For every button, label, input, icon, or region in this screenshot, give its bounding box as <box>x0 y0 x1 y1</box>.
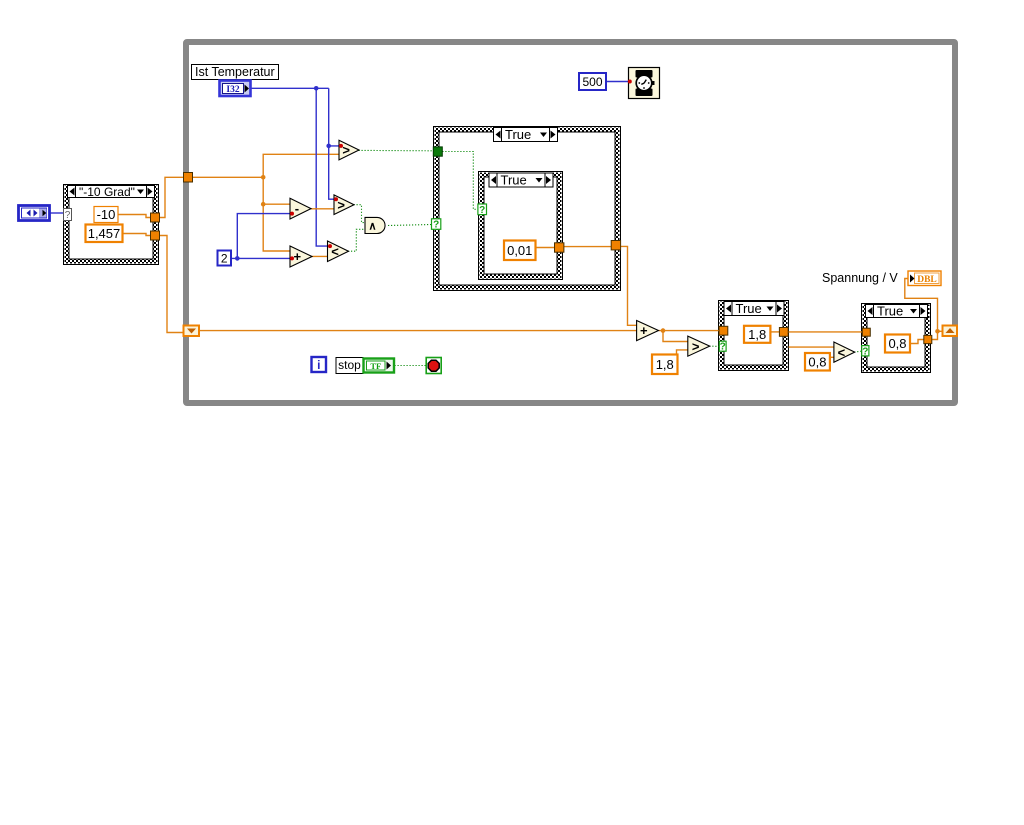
wire const2 to add <box>237 257 290 259</box>
case structure CS0 border <box>64 185 159 265</box>
tunnel CS1 green in <box>433 147 442 156</box>
svg-text:>: > <box>342 143 350 158</box>
svg-text:0,01: 0,01 <box>507 243 532 258</box>
svg-text:?: ? <box>65 210 71 221</box>
case selector terminal CS4 <box>862 346 869 358</box>
wire case2 tunnel to case1 tunnel <box>564 246 611 248</box>
coercion dot greater2 top <box>334 197 338 201</box>
numeric constant 500 (K500) <box>579 73 606 90</box>
wire loop tunnel to junction A <box>192 176 263 178</box>
I32 control terminal <box>220 81 251 97</box>
wire stop TF to loop condition <box>395 365 427 367</box>
stop TF terminal <box>364 359 395 373</box>
case selector label CS1 <box>494 127 558 142</box>
svg-text:>: > <box>337 197 345 212</box>
svg-text:-10: -10 <box>97 207 116 222</box>
wire green tunnel to case2 term <box>442 152 478 210</box>
node greater2 &gt; <box>334 195 354 215</box>
svg-text:1,8: 1,8 <box>748 327 766 342</box>
junction C2 <box>326 144 331 149</box>
case selector label CS2 <box>489 173 553 188</box>
numeric constant -10 (K-10) <box>94 207 118 223</box>
wire add2 junction down to greater3 <box>663 331 688 342</box>
wire 500 to wait <box>606 81 628 83</box>
case selector label CS4 <box>866 304 928 319</box>
wire junction C down vert1 <box>316 88 328 246</box>
svg-text:-: - <box>295 201 299 216</box>
tunnel CS4 out <box>924 335 932 343</box>
wire const 0,8 to less2 <box>830 356 834 358</box>
svg-text:True: True <box>501 173 527 188</box>
wire const 1,8 to greater3 <box>677 350 689 355</box>
svg-text:?: ? <box>479 205 485 216</box>
tunnel CS3 in <box>719 326 728 335</box>
junction A <box>261 175 266 180</box>
svg-text:I32: I32 <box>226 85 239 95</box>
svg-text:+: + <box>640 323 648 338</box>
label stop <box>336 358 363 374</box>
svg-text:"-10 Grad": "-10 Grad" <box>79 185 135 199</box>
wire -10 to tunnel <box>118 215 151 218</box>
tunnel CS1 out <box>611 241 620 250</box>
wire less2 out to case4 term <box>854 351 862 352</box>
svg-text:∧: ∧ <box>368 221 376 233</box>
wire junction B down to add input <box>263 204 290 251</box>
numeric constant 1,457 (K1457) <box>86 225 123 243</box>
case selector terminal CS2 <box>478 204 487 216</box>
svg-text:<: < <box>838 345 846 360</box>
wire 0,01 to case2 tunnel <box>536 247 555 249</box>
wire add out to less1 <box>312 255 329 257</box>
svg-text:0,8: 0,8 <box>888 336 906 351</box>
case structure CS1 border <box>434 127 621 291</box>
wire junction A up to greater1 input <box>263 154 339 177</box>
DBL indicator <box>908 271 941 286</box>
svg-text:500: 500 <box>582 75 602 89</box>
label Ist Temperatur <box>192 65 279 80</box>
svg-text:>: > <box>692 339 700 354</box>
case structure CS2 border <box>479 172 563 280</box>
junction C <box>314 86 319 91</box>
left shift register <box>184 326 200 337</box>
numeric constant 2 (K2) <box>218 251 232 266</box>
wire I32 to junction C <box>251 87 329 89</box>
tunnel CS2 out <box>555 243 564 252</box>
wire 1,457 to tunnel <box>123 234 151 236</box>
case selector terminal CS3 <box>719 341 726 353</box>
wire case3 1,8 to tunnel <box>770 331 779 333</box>
node less2 &lt; <box>834 342 855 362</box>
wire case4 tunnel to junction D <box>932 331 938 339</box>
svg-text:?: ? <box>433 220 439 231</box>
wire case1 out to add2 top <box>621 246 637 325</box>
coercion dot greater1 top <box>339 144 343 148</box>
numeric constant 0,8 (K08a) <box>805 353 830 371</box>
junction const2 branch <box>235 256 240 261</box>
svg-text:+: + <box>293 249 301 264</box>
svg-text:DBL: DBL <box>917 275 937 285</box>
tunnel CS4 in <box>862 328 870 336</box>
wire junction A down to junction B <box>263 177 290 204</box>
svg-text:stop: stop <box>338 358 361 372</box>
svg-text:True: True <box>736 301 762 316</box>
coercion dot wait input <box>628 80 632 84</box>
case selector label CS3 <box>724 301 784 316</box>
svg-text:Ist Temperatur: Ist Temperatur <box>195 65 275 79</box>
svg-text:<: < <box>331 244 339 259</box>
case CS0 selector terminal <box>64 209 72 222</box>
svg-text:True: True <box>877 304 903 319</box>
wire enum to case selector <box>50 212 64 214</box>
iteration terminal i <box>312 357 327 372</box>
numeric constant 1,8 (K18b) <box>744 326 770 343</box>
while loop border <box>186 42 955 403</box>
coercion dot less1 top <box>328 244 332 248</box>
tunnel while loop left <box>184 173 193 183</box>
wire vert2 down to greater2 <box>329 146 335 199</box>
wire case4 0,8 to tunnel <box>910 340 924 344</box>
node greater1 &gt; <box>339 140 359 160</box>
coercion dot subtract bottom <box>290 212 294 216</box>
svg-text:i: i <box>317 358 320 372</box>
node add <box>290 246 312 267</box>
numeric constant 0,8 (K08b) <box>885 335 910 353</box>
node subtract <box>290 198 311 219</box>
svg-text:True: True <box>505 127 531 142</box>
wire vert2 down to greater1 <box>329 88 340 146</box>
wire case3 tunnel to case4 tunnel <box>788 331 862 333</box>
svg-text:TF: TF <box>370 361 381 371</box>
node less1 &lt; <box>328 241 349 262</box>
svg-text:Spannung / V: Spannung / V <box>822 271 898 285</box>
svg-text:0,8: 0,8 <box>808 354 826 369</box>
wire subtract out to greater2 <box>311 208 335 210</box>
tunnel CS3 out <box>779 328 788 337</box>
case structure CS4 border <box>862 304 931 373</box>
wait ms node <box>629 68 660 99</box>
svg-text:?: ? <box>720 342 726 353</box>
wire tunnel to loop tunnel <box>159 177 184 217</box>
svg-text:1,457: 1,457 <box>88 226 121 241</box>
wire greater3 out to case3 term <box>709 345 719 347</box>
node add2 <box>637 321 659 341</box>
case selector label CS0 <box>68 185 155 199</box>
numeric constant 1,8 (K18a) <box>652 355 678 375</box>
numeric constant 0,01 (K001) <box>504 241 536 261</box>
node greater3 &gt; <box>688 336 710 356</box>
junction B <box>261 202 266 207</box>
wire greater1 out to green tunnel <box>359 149 434 151</box>
svg-text:?: ? <box>862 346 868 357</box>
wire junction D up to DBL indicator <box>905 279 938 332</box>
junction D <box>935 329 940 334</box>
loop condition stop button <box>426 358 441 374</box>
wire junction D to right shift register <box>938 330 944 332</box>
junction add2 out <box>661 328 666 333</box>
wire shift register to add2 <box>199 330 637 332</box>
wire case3 border to less2 <box>789 346 835 348</box>
wire const2 to subtract <box>231 214 291 259</box>
tunnel CS0 out1 <box>151 213 160 222</box>
wire tunnel to left shift register <box>159 236 184 333</box>
enum constant <box>19 206 50 221</box>
svg-text:2: 2 <box>221 251 228 265</box>
case selector terminal CS1 <box>432 219 441 231</box>
and gate <box>365 217 385 233</box>
svg-text:1,8: 1,8 <box>656 357 674 372</box>
right shift register <box>943 326 958 337</box>
wire less1 out to and gate <box>348 229 366 251</box>
case structure CS3 border <box>719 301 789 371</box>
tunnel CS0 out2 <box>151 231 160 240</box>
wire add2 out to case3 tunnel <box>659 330 720 332</box>
wire and out to case1 selector term <box>388 225 432 226</box>
coercion dot add bottom <box>290 256 294 260</box>
wire greater2 out to and gate <box>354 205 366 223</box>
